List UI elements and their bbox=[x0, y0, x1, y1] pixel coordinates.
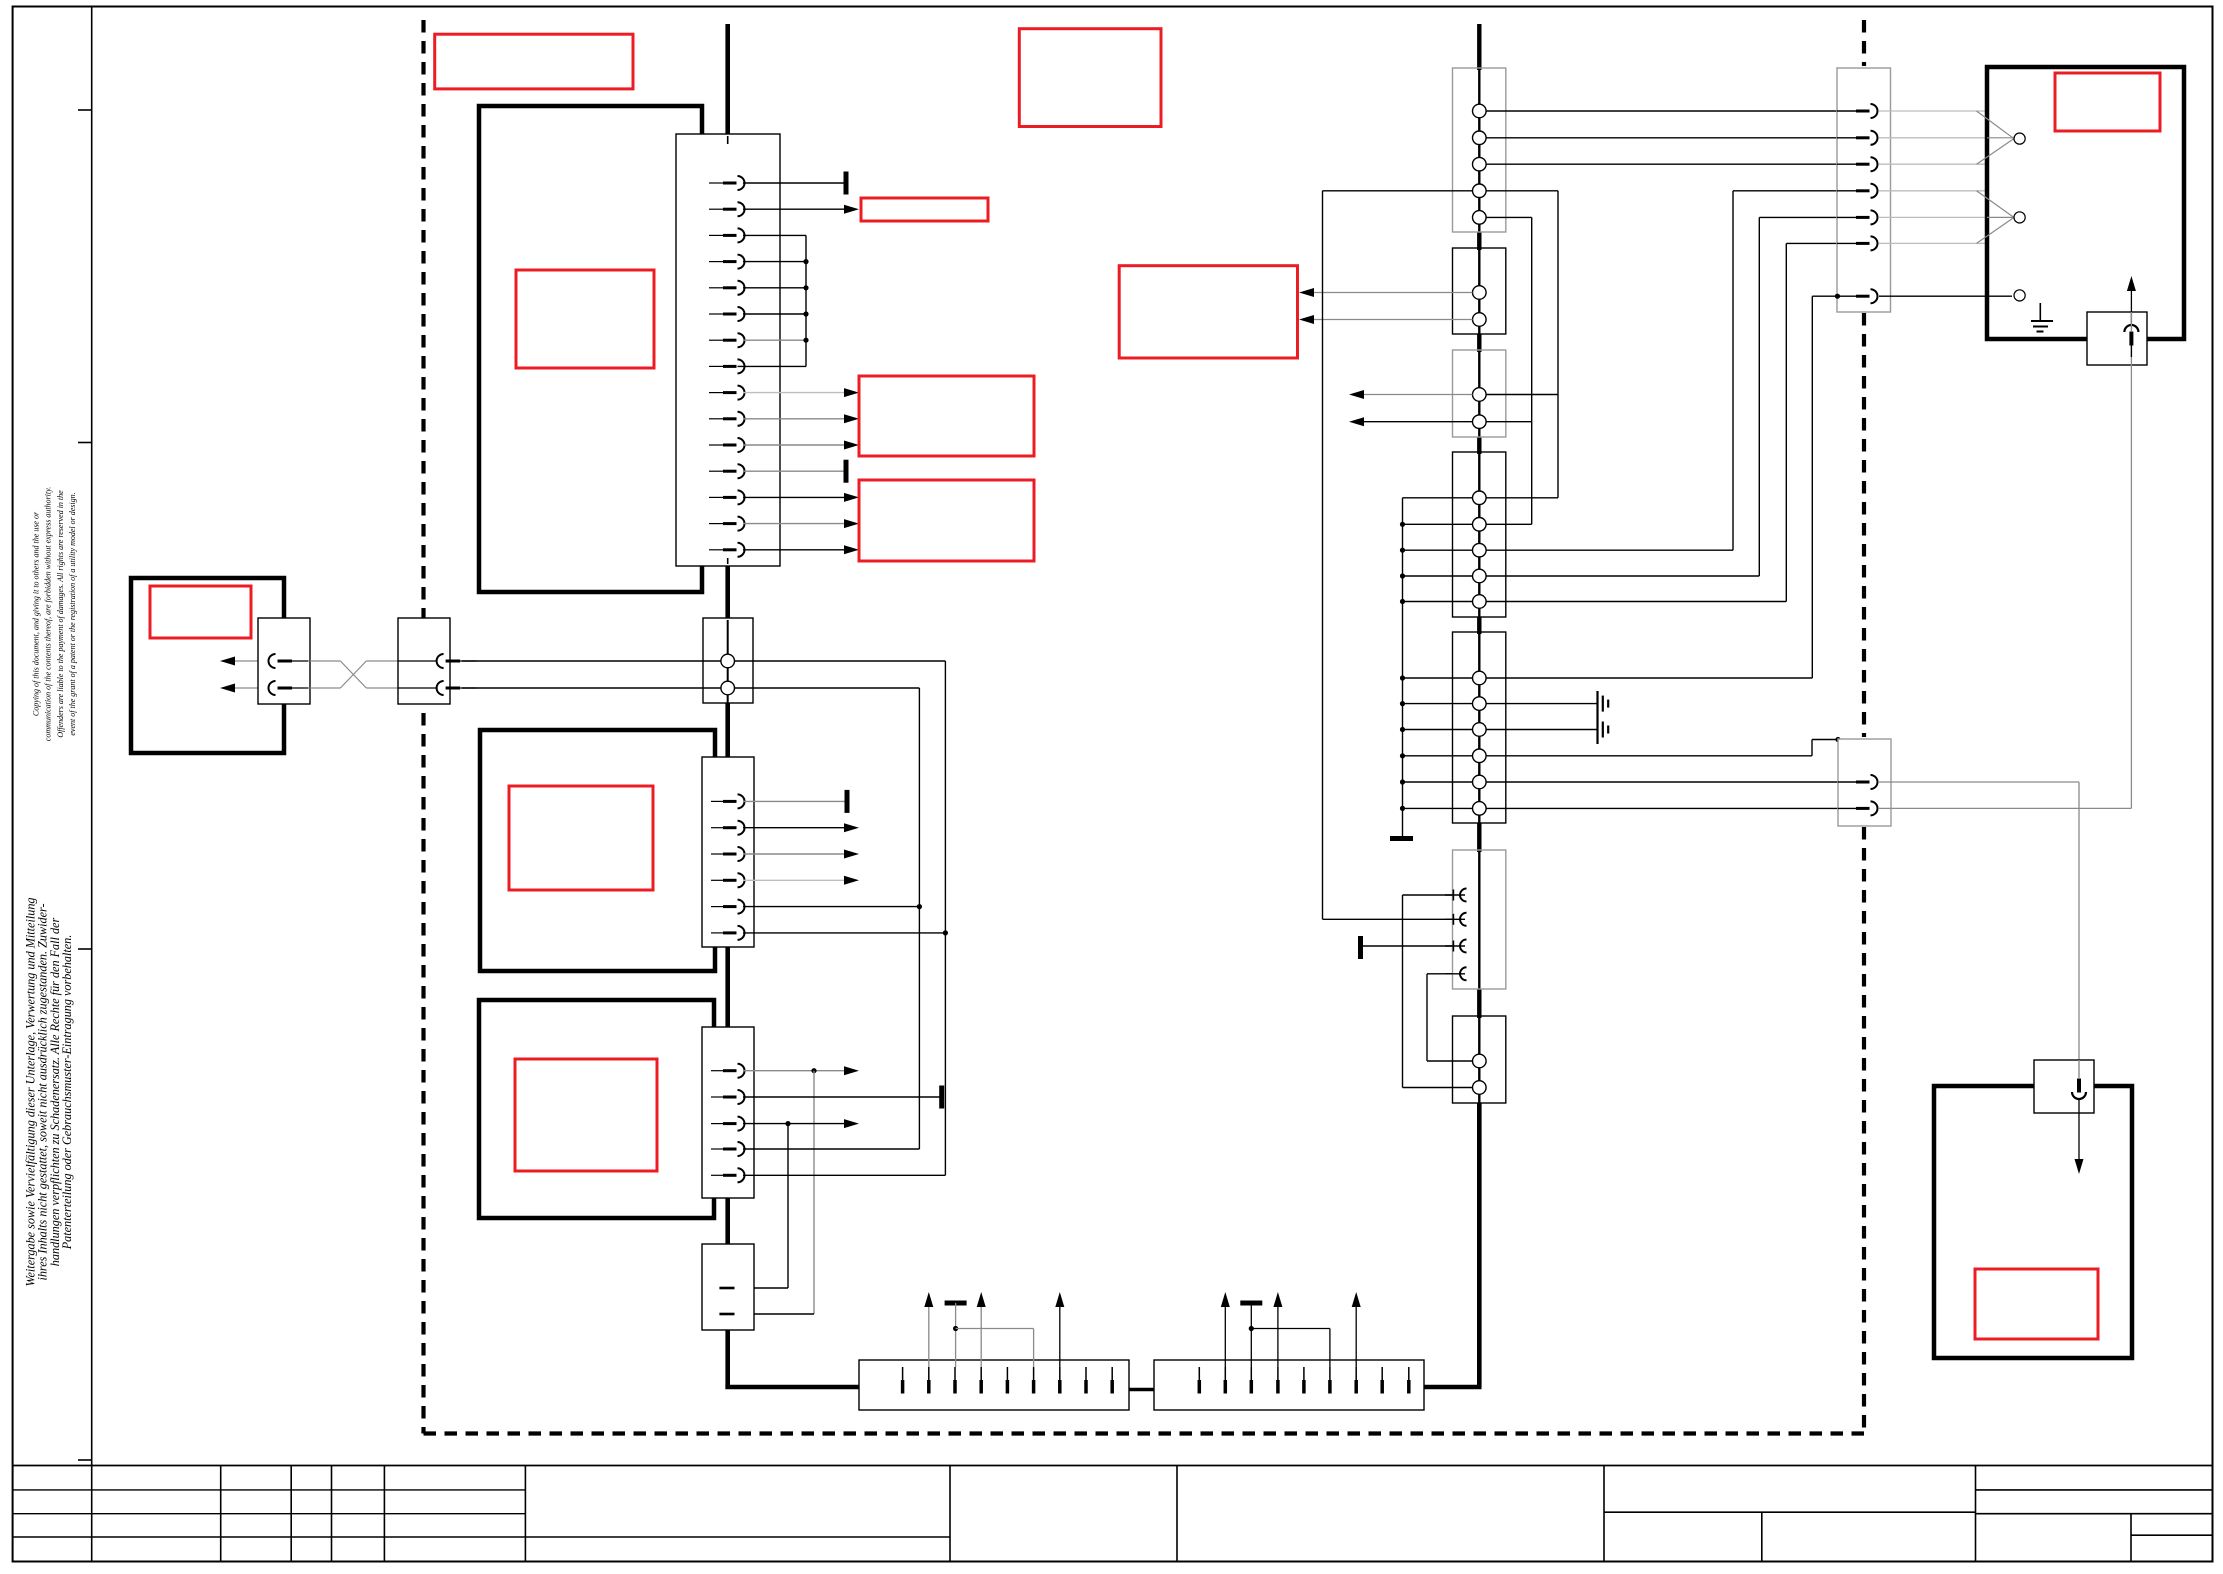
connector M2 body bbox=[1453, 248, 1506, 334]
wire M7.2 bbox=[1403, 1087, 1473, 1089]
fold mark 1 bbox=[78, 109, 92, 111]
device box B2 (middle left, thick) bbox=[480, 730, 715, 971]
connector M1 body bbox=[1453, 68, 1506, 232]
wire X3.1 to end-stop bbox=[743, 800, 847, 802]
device box B3 (bottom left, thick) bbox=[479, 1000, 714, 1218]
wire M6.1 to bus O bbox=[1403, 894, 1453, 896]
wire X7.2 to X2.2 bbox=[462, 687, 721, 689]
connector M4 body bbox=[1453, 452, 1506, 617]
chassis ground symbols bbox=[1596, 691, 1598, 744]
red label box R10 (inside B2) bbox=[509, 786, 653, 890]
arrow up from K2.2 bbox=[1224, 1304, 1226, 1367]
wire K1.3 up bbox=[955, 1303, 957, 1367]
wire M1.1 to Xr.1 bbox=[1486, 110, 1855, 112]
connector X6 body bbox=[258, 618, 310, 704]
wire X1.9 (arrow to K21) bbox=[743, 392, 845, 394]
red label box R11 (inside B3) bbox=[515, 1059, 657, 1171]
bundle node T2 bbox=[2014, 212, 2025, 223]
wire M3.1 (arrow left) bbox=[1360, 394, 1473, 396]
wire X3.3 (arrow) bbox=[743, 853, 845, 855]
wire X3.5 junction bbox=[743, 906, 919, 908]
connector X2 body bbox=[703, 618, 753, 703]
wire X4.3 (arrow + branch) bbox=[743, 1123, 845, 1125]
plug box P1 on B5 bottom bbox=[2087, 312, 2147, 365]
power bus (through connector X2) bbox=[727, 620, 729, 703]
svg-text:Offenders are liable to the pa: Offenders are liable to the payment of d… bbox=[56, 490, 65, 738]
arrow up from K2.7 bbox=[1355, 1304, 1357, 1367]
fold mark 2 bbox=[78, 442, 92, 444]
plug symbol P2 bbox=[2072, 1092, 2086, 1099]
power bus (bottom feed to strip K1) bbox=[725, 1385, 859, 1390]
end-stop at X1.1 bbox=[844, 172, 849, 195]
wire P1 down to Xs.2 bbox=[2130, 312, 2132, 331]
terminal X5 body bbox=[702, 1244, 754, 1330]
bus M feed to strip K2 bbox=[1424, 1385, 1482, 1390]
wire X3.2 (arrow) bbox=[743, 827, 845, 829]
wire X1.1 to end-stop bbox=[743, 182, 846, 184]
wire X2.2 to X4.4 bbox=[735, 687, 920, 689]
wire M6.3 to end-stop bbox=[1361, 945, 1453, 947]
earth ground in B5 bbox=[2039, 303, 2041, 321]
connector X7 body bbox=[398, 618, 450, 704]
wire M7.1 bbox=[1427, 1060, 1473, 1062]
wire M5.2 to chassis ground bbox=[1486, 703, 1597, 705]
svg-text:Copying of this document, and: Copying of this document, and giving it … bbox=[32, 511, 41, 716]
wire stubs inside X2 bbox=[703, 660, 721, 662]
bundle merge T2 wires bbox=[1977, 191, 2014, 217]
wire Xr.7 to M5.1 bbox=[1812, 295, 1855, 297]
connector M1 sockets bbox=[1473, 104, 1487, 118]
wire X2.1 to X4.5 bbox=[735, 660, 946, 662]
wire X4.5 stub bbox=[743, 1174, 945, 1176]
bus N (left of column) bbox=[1402, 498, 1404, 839]
connector M2 sockets bbox=[1473, 286, 1487, 300]
wire M6.4 down bbox=[1427, 973, 1452, 975]
power bus (X1 to X2) bbox=[725, 564, 730, 620]
connector Xs pins 1-2 bbox=[1856, 781, 1870, 784]
fold mark 4 bbox=[78, 1459, 92, 1461]
connector X3 body bbox=[702, 757, 754, 947]
connector X6 pin 1 bbox=[269, 654, 276, 668]
branch X4.1 to X5.2 bbox=[813, 1071, 815, 1314]
device box B1 (top left, thick) bbox=[479, 106, 702, 592]
connector X7 pin 1 bbox=[398, 660, 437, 662]
wire X4.2 to end-stop bbox=[743, 1096, 942, 1098]
wires column sockets to bus N bbox=[1403, 497, 1473, 499]
node T3 bbox=[2014, 290, 2025, 301]
wire Xr.7 into B5 bbox=[1879, 295, 2012, 297]
bridge K2.3-K2.6 bbox=[1251, 1328, 1330, 1330]
connector X6 pin 2 bbox=[269, 681, 276, 695]
wire X1.6 to bridge bbox=[743, 313, 806, 315]
title block bbox=[13, 1465, 2213, 1467]
power bus (top segment) bbox=[725, 24, 730, 136]
red label box R1 (top left) bbox=[435, 34, 633, 89]
wire arrow down into B6 bbox=[2078, 1098, 2080, 1160]
terminal strip K1 body bbox=[859, 1360, 1129, 1410]
power bus (X5 down) bbox=[725, 1329, 730, 1387]
wire X1.13 (arrow to K22) bbox=[743, 496, 845, 498]
terminal strip K1 pins bbox=[902, 1367, 904, 1381]
wire X3.4 (arrow) bbox=[743, 879, 845, 881]
wire bridge X1.3-X1.8 bbox=[743, 234, 806, 236]
arrow up from K1.7 bbox=[1059, 1304, 1061, 1367]
connector M5 body bbox=[1453, 632, 1506, 823]
wire X3.6 junction bbox=[743, 932, 945, 934]
connector M7 body bbox=[1453, 1016, 1506, 1103]
wire M1.2 to Xr.2 bbox=[1486, 137, 1855, 139]
arrow up from K1.4 bbox=[980, 1304, 982, 1367]
connector M3 sockets bbox=[1473, 388, 1487, 402]
svg-text:communication of the contents: communication of the contents thereof, a… bbox=[44, 487, 53, 741]
wire X1.12 to end-stop bbox=[743, 470, 846, 472]
red label box R7 (signal K20) bbox=[861, 198, 988, 221]
red label box R13 (inside B5) bbox=[2055, 73, 2160, 131]
dashed cabinet boundary (bottom edge) bbox=[424, 1431, 1865, 1435]
wire K2.3 up bbox=[1250, 1303, 1252, 1367]
dashed cabinet boundary (right edge) bbox=[1862, 20, 1866, 66]
wire X1.2 (arrow to K20) bbox=[743, 208, 845, 210]
power bus (X3 to X4) bbox=[725, 946, 730, 1028]
red label box R14 (inside B6) bbox=[1975, 1269, 2098, 1339]
connector X1 body bbox=[676, 134, 780, 566]
wire X1.5 to bridge bbox=[743, 287, 806, 289]
connector Xr pins 1-7 bbox=[1856, 110, 1870, 113]
bridge K1.3-K1.6 bbox=[956, 1328, 1034, 1330]
connector X3 pins 1-6 bbox=[711, 800, 723, 802]
wire X1.10 (arrow to K21) bbox=[743, 418, 845, 420]
red label box R8 (signal block K21) bbox=[859, 376, 1034, 456]
wire W2 (arrow into B4) bbox=[234, 687, 266, 689]
frame margin column line bbox=[91, 7, 93, 1562]
device box B4 (left, thick) bbox=[131, 578, 284, 753]
wire W1 (arrow into B4) bbox=[234, 660, 266, 662]
connector M6 body bbox=[1453, 850, 1506, 989]
wire Xr.6 to M4.5 bbox=[1786, 242, 1855, 244]
red label box R9 (signal block K22) bbox=[859, 480, 1034, 561]
wires Xr pins into B5 (gray) bbox=[1879, 110, 1987, 112]
power bus (through connector X1) bbox=[727, 136, 729, 144]
wire X1.14 (arrow to K22) bbox=[743, 523, 845, 525]
wire stubs into Xr bbox=[1837, 110, 1856, 112]
connector X4 pins 1-5 bbox=[711, 1070, 723, 1072]
bundle node T1 bbox=[2014, 133, 2025, 144]
wire M6.2 long up bbox=[1323, 918, 1453, 920]
plug symbol P1 bbox=[2124, 325, 2138, 332]
red label box R2 (top middle) bbox=[1019, 29, 1161, 127]
bus M (bottom thick segment) bbox=[1477, 1103, 1482, 1387]
arrow up from K2.4 bbox=[1277, 1304, 1279, 1367]
wire X4.1 (arrow + branch) bbox=[743, 1070, 845, 1072]
wire Xs.1 to plug P2 bbox=[1879, 781, 2079, 783]
bus N termination bar bbox=[1390, 836, 1413, 841]
device box B6 (bottom right, thick) bbox=[1934, 1086, 2132, 1358]
red label box R6 (inside B4) bbox=[150, 586, 251, 638]
connector M6 contacts bbox=[1452, 890, 1454, 901]
wire M1.5 to M4.2 bbox=[1486, 216, 1532, 218]
connector X7 pin 2 bbox=[398, 687, 437, 689]
connector M7 sockets bbox=[1473, 1054, 1487, 1068]
red label box R12 (mid target) bbox=[1119, 266, 1297, 358]
wire stubs into Xs bbox=[1838, 781, 1856, 783]
wire X4.4 stub bbox=[743, 1148, 919, 1150]
connector M3 body bbox=[1453, 350, 1506, 437]
wire M5.5 to Xs.1 bbox=[1486, 781, 1855, 783]
wire X7.1 to X2.1 bbox=[462, 660, 721, 662]
link wire K1-K2 bbox=[1129, 1388, 1154, 1391]
power bus (X4 to X5) bbox=[725, 1197, 730, 1245]
connector X2 socket 1 bbox=[721, 654, 735, 668]
wire M1.3 to Xr.3 bbox=[1486, 163, 1855, 165]
wire X1.4 to bridge bbox=[743, 261, 806, 263]
svg-text:Patenterteilung oder Gebrauchs: Patenterteilung oder Gebrauchsmuster-Ein… bbox=[60, 935, 74, 1251]
wire M5.4 to Xs corner bbox=[1486, 755, 1812, 757]
red label box R3 (inside B1) bbox=[516, 270, 654, 368]
wire X1.7 to bridge bbox=[743, 339, 806, 341]
device box B5 (top right, thick) bbox=[1987, 67, 2184, 339]
wire stub and junction at Xr.7 bbox=[1837, 295, 1856, 297]
wire M3.1 right stub bbox=[1486, 394, 1558, 396]
wire Xr.5 to M4.4 bbox=[1759, 216, 1855, 218]
wire M3.2 right stub bbox=[1486, 421, 1532, 423]
crossover wires X6-X7 bbox=[310, 660, 340, 662]
arrow up from K1.2 bbox=[928, 1304, 930, 1367]
terminal strip K2 pins bbox=[1198, 1367, 1200, 1381]
end-stop at X4.2 bbox=[939, 1086, 944, 1109]
dashed cabinet boundary (left edge) bbox=[421, 20, 425, 1434]
terminal X5 pin 2 bbox=[719, 1313, 734, 1316]
branch X4.3 to X5.1 bbox=[787, 1124, 789, 1288]
bus M thick segments between connectors bbox=[1477, 24, 1481, 70]
connector Xr body bbox=[1837, 68, 1891, 312]
svg-text:event of the grant of a patent: event of the grant of a patent or the re… bbox=[68, 492, 77, 735]
wire M5.3 to chassis ground bbox=[1486, 729, 1597, 731]
bus M (vertical, middle column) bbox=[1478, 24, 1480, 1103]
wire M3.2 (arrow left) bbox=[1360, 421, 1473, 423]
terminal strip K2 body bbox=[1154, 1360, 1424, 1410]
wire loop arrow up into B5 bbox=[2130, 290, 2132, 326]
connector X4 body bbox=[702, 1027, 754, 1198]
plug box P2 on B6 top bbox=[2034, 1060, 2094, 1113]
connector X1 pins 1-15 bbox=[709, 182, 723, 184]
connector M4 sockets bbox=[1473, 491, 1487, 505]
fold mark 3 bbox=[78, 948, 92, 950]
end-stop above K2.3 bbox=[1240, 1301, 1262, 1306]
terminal X5 pin 1 bbox=[719, 1287, 734, 1290]
end-stop at X3.1 bbox=[845, 790, 850, 813]
connector Xs body bbox=[1838, 739, 1891, 826]
end-stop at X1.12 bbox=[844, 460, 849, 483]
wire M2.1 (arrow to R12) bbox=[1306, 292, 1473, 294]
connector M5 sockets bbox=[1473, 671, 1487, 685]
wire M5.6 to Xs.2 bbox=[1486, 807, 1855, 809]
power bus (X2 to X3) bbox=[725, 703, 730, 758]
bundle merge T1 wires bbox=[1977, 111, 2014, 138]
wire M2.2 (arrow to R12) bbox=[1306, 319, 1473, 321]
wire Xr.4 to M4.3 bbox=[1733, 190, 1855, 192]
wire M1.4 to M4.1 bbox=[1486, 190, 1558, 192]
connector X2 socket 2 bbox=[721, 681, 735, 695]
end-stop at M6.3 bbox=[1358, 936, 1363, 959]
wire X1.15 (arrow to K22) bbox=[743, 549, 845, 551]
wire X1.11 (arrow to K21) bbox=[743, 444, 845, 446]
end-stop above K1.3 bbox=[945, 1301, 967, 1306]
